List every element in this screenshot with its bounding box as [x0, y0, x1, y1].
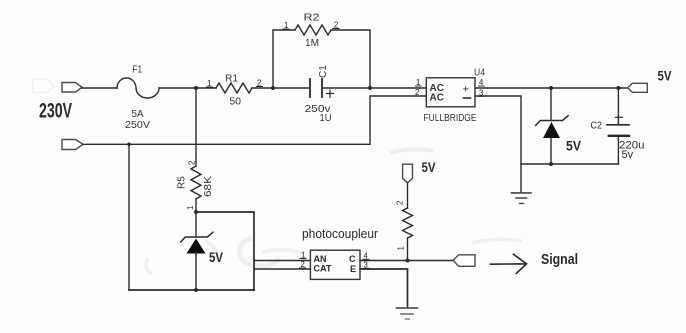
wire R1 to C1 [252, 87, 310, 89]
wire fuse to R1 [159, 87, 216, 89]
svg-text:1U: 1U [320, 113, 332, 124]
wire left loop vertical [128, 144, 130, 290]
svg-text:5V: 5V [422, 160, 436, 175]
wire bottom rail left [129, 289, 254, 291]
svg-text:68K: 68K [203, 176, 214, 197]
svg-text:U4: U4 [474, 68, 485, 79]
fullbridge U4 box [426, 78, 475, 107]
svg-text:50: 50 [230, 97, 242, 108]
node junction at x196 top [194, 86, 198, 90]
wire junction vertical x196 down to R5 [195, 88, 197, 166]
svg-text:1: 1 [186, 206, 195, 210]
ground under fullbridge [520, 164, 522, 193]
svg-text:FULLBRIDGE: FULLBRIDGE [424, 113, 477, 124]
svg-text:AC: AC [430, 93, 444, 104]
node junction zener bottom [194, 288, 198, 292]
svg-text:Signal: Signal [541, 252, 578, 268]
port Signal output [453, 255, 475, 266]
port P1 230V top [62, 83, 82, 93]
resistor R2 branch left vertical wire [273, 30, 295, 88]
resistor R1 [216, 83, 252, 93]
svg-text:+: + [463, 84, 469, 96]
plus sign of C1 [327, 93, 334, 95]
photocoupler box [310, 250, 360, 279]
svg-text:1: 1 [397, 246, 406, 250]
node junction at x129 lower [127, 143, 131, 147]
svg-text:5V: 5V [658, 68, 673, 84]
svg-text:1M: 1M [305, 38, 319, 49]
zener D1 5V [536, 116, 569, 126]
svg-text:R2: R2 [304, 13, 321, 24]
node junction C2 top [616, 86, 620, 90]
svg-text:R5: R5 [177, 176, 188, 189]
wire R5 to node [195, 199, 197, 212]
resistor pullup [403, 208, 413, 238]
wire port1 to fuse [82, 87, 117, 89]
svg-text:2: 2 [188, 161, 197, 165]
port 5V right [628, 83, 648, 92]
port 5V vertical [403, 164, 413, 183]
wire U4 pin3 down [475, 96, 521, 164]
svg-text:F1: F1 [133, 65, 143, 76]
svg-text:photocoupleur: photocoupleur [302, 226, 379, 241]
svg-text:R1: R1 [225, 74, 238, 85]
svg-text:AN: AN [314, 254, 327, 264]
svg-text:5V: 5V [209, 250, 223, 265]
wire bottom rail right [521, 163, 618, 165]
node junction zener1 bottom [549, 162, 553, 166]
port P2 230V bottom [62, 140, 83, 150]
ground under photocoupler [397, 307, 418, 309]
svg-text:CAT: CAT [314, 264, 332, 274]
capacitor C1 [309, 79, 311, 97]
zener D2 5V [181, 232, 213, 242]
wire port to pullup resistor [407, 183, 409, 208]
node junction at x273 [271, 86, 275, 90]
photocoupler pin wires left [254, 260, 310, 262]
wire node to right vertical [196, 212, 254, 290]
zener D1 wire top [550, 88, 552, 121]
fuse F1 [117, 78, 159, 98]
wire R2 right vertical [331, 30, 370, 88]
wire C1 to U4 pin1 [322, 87, 426, 89]
svg-text:5v: 5v [622, 149, 634, 161]
zener D2 wire top [195, 212, 197, 237]
svg-text:230V: 230V [39, 100, 72, 123]
wire U4 pin4 to 5V port [475, 87, 628, 89]
resistor R5 [191, 166, 201, 199]
svg-text:C: C [349, 254, 356, 264]
svg-text:5A: 5A [132, 109, 144, 120]
svg-text:2: 2 [396, 201, 405, 205]
svg-text:C2: C2 [591, 121, 603, 132]
svg-text:5V: 5V [566, 139, 581, 154]
photocoupler pin wires right [360, 260, 453, 262]
capacitor C2 [617, 88, 619, 125]
wire pullup to output wire [407, 238, 409, 261]
resistor R2 [295, 25, 331, 35]
zener D1 wire bottom [550, 138, 552, 164]
wire lower AC line [83, 96, 426, 144]
arrow to Signal [491, 254, 527, 273]
svg-text:C1: C1 [318, 65, 329, 78]
zener D2 wire bottom [195, 253, 197, 290]
node junction at x370 [368, 86, 372, 90]
node junction R5 pin1 [194, 210, 198, 214]
node junction pullup bottom [406, 259, 410, 263]
svg-text:E: E [350, 264, 356, 274]
svg-text:250V: 250V [125, 120, 150, 131]
node junction zener1 top [549, 86, 553, 90]
